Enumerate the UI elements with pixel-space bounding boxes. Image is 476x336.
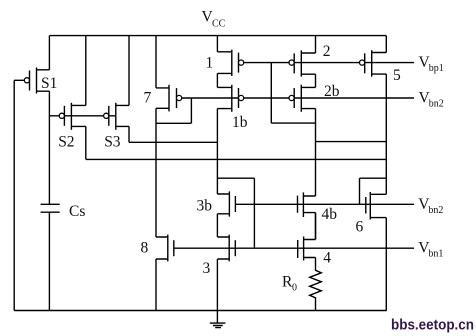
- svg-text:1b: 1b: [232, 114, 248, 131]
- svg-text:6: 6: [356, 218, 364, 235]
- svg-text:S2: S2: [58, 134, 74, 151]
- svg-text:0: 0: [292, 282, 297, 293]
- svg-text:3: 3: [203, 260, 211, 277]
- svg-text:Cs: Cs: [69, 203, 85, 220]
- svg-text:4b: 4b: [322, 206, 338, 223]
- svg-text:S1: S1: [41, 75, 57, 92]
- svg-text:bn2: bn2: [428, 205, 443, 216]
- svg-text:bn2: bn2: [429, 99, 444, 110]
- svg-text:2: 2: [323, 43, 331, 60]
- svg-text:7: 7: [144, 90, 152, 107]
- svg-text:5: 5: [393, 67, 401, 84]
- svg-text:3b: 3b: [197, 198, 213, 215]
- svg-text:bbs.eetop.cn: bbs.eetop.cn: [391, 317, 474, 334]
- svg-text:4: 4: [323, 250, 331, 267]
- svg-text:CC: CC: [212, 19, 226, 30]
- svg-text:8: 8: [141, 240, 149, 257]
- svg-text:1: 1: [206, 55, 214, 72]
- svg-text:2b: 2b: [324, 83, 340, 100]
- svg-text:bn1: bn1: [428, 249, 443, 260]
- svg-text:bp1: bp1: [429, 63, 444, 74]
- svg-text:S3: S3: [104, 134, 121, 151]
